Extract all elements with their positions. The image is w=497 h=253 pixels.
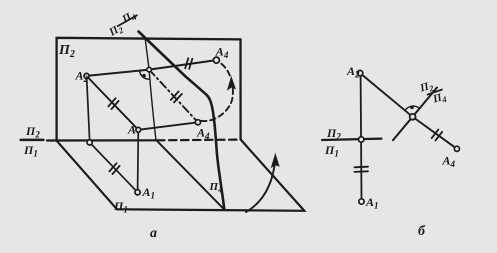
svg-text:а: а bbox=[150, 226, 157, 241]
right-angle mark at hub (arc with dot) bbox=[140, 71, 150, 80]
point A1 bbox=[135, 190, 140, 195]
point hub a bbox=[147, 67, 152, 72]
tick on hub-A4 segment bbox=[185, 58, 192, 69]
plane П1 parallelogram bbox=[57, 140, 305, 211]
axis П2/П1 line bbox=[322, 139, 382, 140]
dash-dot line hub to A4 bbox=[149, 70, 198, 123]
point A1 b bbox=[359, 199, 364, 204]
line A2-hub-A4 (perpendicular to axis) bbox=[87, 60, 217, 76]
tick on axis-A1 line bbox=[109, 163, 119, 174]
svg-text:П2: П2 bbox=[326, 126, 341, 142]
tick on A1 segment bbox=[355, 167, 369, 172]
axis П2/П1 dashed segment bbox=[157, 139, 239, 142]
projection line A2 to axis point bbox=[87, 78, 90, 140]
svg-text:П1: П1 bbox=[23, 143, 38, 159]
line A2 to A bbox=[87, 76, 139, 130]
tick on dash-dot line bbox=[171, 91, 182, 102]
plane П2 frame bbox=[57, 38, 241, 141]
line A to A4 bbox=[138, 122, 198, 130]
line A to A1 bbox=[137, 132, 140, 190]
svg-text:П4: П4 bbox=[119, 9, 138, 28]
line axis point to A1 bbox=[90, 142, 138, 192]
axis П2/П4 bbox=[393, 88, 437, 141]
point A2 bbox=[84, 73, 89, 78]
point A4 top bbox=[213, 57, 219, 63]
rotation arc of П4 bbox=[246, 158, 276, 212]
svg-text:A4: A4 bbox=[442, 154, 456, 170]
point hub b bbox=[410, 114, 416, 120]
svg-text:A: A bbox=[127, 123, 136, 137]
axis П2/П1 solid segment bbox=[21, 139, 44, 142]
point A4 bottom bbox=[195, 120, 200, 125]
right-angle mark at hub b bbox=[405, 106, 419, 111]
plane П4 outer edge (thick curve) bbox=[139, 32, 225, 210]
vertical line A2-A1 bbox=[360, 76, 363, 200]
label П2/П4 axis panel b (rotated) bbox=[418, 79, 448, 107]
point A2 b bbox=[357, 70, 362, 75]
svg-text:б: б bbox=[418, 224, 426, 239]
svg-text:A1: A1 bbox=[365, 195, 379, 211]
point axis b bbox=[359, 137, 364, 142]
point Ax on axis bbox=[87, 140, 92, 145]
svg-text:A2: A2 bbox=[346, 64, 360, 80]
dashed rotation arc A4->A4 bbox=[201, 62, 233, 121]
point A bbox=[136, 127, 141, 132]
tick on hub-A4 bbox=[432, 129, 443, 140]
point A4 b bbox=[454, 146, 459, 151]
svg-text:П2: П2 bbox=[58, 43, 75, 60]
svg-text:П1: П1 bbox=[113, 199, 128, 215]
svg-text:П1: П1 bbox=[324, 143, 339, 159]
label П4/П2 axis top (rotated) bbox=[106, 9, 138, 41]
svg-text:A2: A2 bbox=[75, 69, 89, 85]
line A2-hub-A4 bbox=[360, 73, 457, 149]
svg-text:A4: A4 bbox=[215, 45, 229, 61]
tick on A2-A line bbox=[108, 98, 118, 109]
rotation arc arrowhead bbox=[272, 155, 279, 168]
svg-text:П2: П2 bbox=[25, 124, 40, 140]
dashed arc arrowhead bbox=[228, 78, 235, 90]
fold line П1/П4 bbox=[157, 141, 224, 209]
axis П2/П4 (thin line through hub) bbox=[145, 39, 156, 141]
svg-text:A4: A4 bbox=[196, 126, 210, 142]
svg-text:A1: A1 bbox=[142, 185, 156, 201]
